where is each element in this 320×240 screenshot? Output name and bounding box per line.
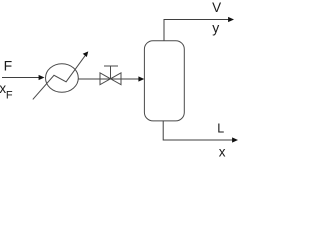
valve body left triangle: [100, 73, 111, 85]
heat arrowhead: [83, 51, 89, 57]
svg-text:V: V: [212, 0, 221, 15]
svg-text:y: y: [212, 20, 219, 36]
feed arrowhead into heater: [39, 75, 45, 80]
wire feed line: [2, 77, 39, 79]
heater E1 circle: [46, 64, 79, 93]
valve handle bar: [104, 65, 118, 67]
svg-text:L: L: [217, 121, 224, 135]
heater zigzag / heat input arrow: [33, 56, 85, 100]
wire liquid stub down: [163, 121, 232, 140]
wire heater to valve: [78, 78, 139, 80]
svg-text:x: x: [219, 144, 226, 159]
svg-text:F: F: [6, 89, 13, 101]
vapor arrowhead: [228, 17, 234, 22]
arrowhead into drum: [138, 76, 144, 81]
liquid arrowhead: [232, 137, 238, 142]
flash drum vessel: [144, 41, 184, 121]
valve stem: [110, 66, 112, 79]
wire vapor stub up: [164, 20, 229, 41]
valve body right triangle: [111, 73, 122, 85]
svg-text:F: F: [4, 58, 13, 74]
